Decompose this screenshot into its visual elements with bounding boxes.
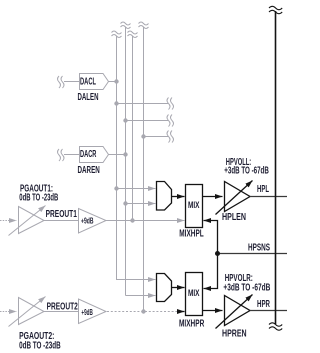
svg-text:HPL: HPL: [257, 184, 269, 195]
svg-text:MIX: MIX: [188, 200, 200, 211]
svg-text:MIXHPR: MIXHPR: [179, 319, 205, 330]
svg-text:+9dB: +9dB: [81, 216, 94, 226]
svg-text:HPREN: HPREN: [222, 328, 247, 339]
svg-text:DACL: DACL: [80, 77, 96, 88]
svg-text:DALEN: DALEN: [78, 92, 99, 103]
svg-text:+9dB: +9dB: [81, 307, 92, 317]
svg-text:HPR: HPR: [257, 299, 270, 310]
svg-text:MIXHPL: MIXHPL: [179, 228, 203, 239]
svg-text:DACR: DACR: [80, 149, 97, 160]
svg-text:HPLEN: HPLEN: [222, 212, 246, 223]
svg-text:DAREN: DAREN: [78, 165, 100, 176]
svg-text:+3dB TO -67dB: +3dB TO -67dB: [223, 283, 270, 294]
svg-text:0dB TO -23dB: 0dB TO -23dB: [19, 193, 58, 204]
svg-text:HPSNS: HPSNS: [248, 242, 270, 253]
svg-text:0dB TO -23dB: 0dB TO -23dB: [19, 340, 61, 351]
svg-text:PREOUT1: PREOUT1: [46, 209, 78, 220]
svg-text:MIX: MIX: [188, 288, 200, 299]
svg-text:+3dB TO -67dB: +3dB TO -67dB: [224, 166, 268, 177]
svg-text:PREOUT2: PREOUT2: [47, 301, 78, 312]
